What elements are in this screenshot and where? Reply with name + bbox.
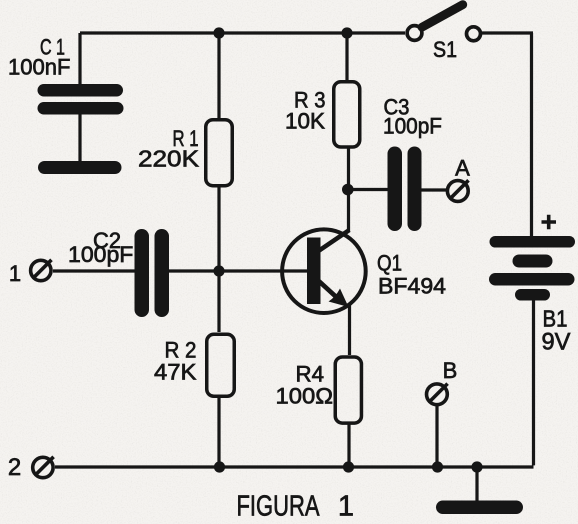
capacitor C1 plate 2 — [38, 102, 124, 115]
wire input to C2 — [53, 269, 136, 272]
ground below C1 — [38, 161, 122, 174]
resistor R1 — [206, 120, 233, 186]
svg-text:A: A — [455, 156, 470, 181]
battery B1 plate 4 — [515, 289, 550, 301]
svg-text:B: B — [443, 358, 458, 383]
wire R1 top — [217, 33, 220, 118]
transistor Q1 emitter lead — [316, 279, 339, 300]
wire ground stub — [475, 467, 478, 501]
caption FIGURA 1 — [237, 491, 355, 523]
node top rail R1 — [213, 27, 224, 38]
ground bar bottom right — [436, 501, 523, 515]
capacitor C1 plate 1 — [38, 84, 124, 97]
svg-text:FIGURA: FIGURA — [237, 491, 320, 523]
svg-text:100nF: 100nF — [8, 55, 71, 80]
wire C3 to terminal A — [421, 188, 447, 191]
capacitor C3 plate 1 — [388, 147, 403, 232]
terminal 1 — [31, 260, 52, 281]
svg-text:9V: 9V — [542, 329, 571, 356]
transistor Q1 emitter arrowhead — [329, 289, 349, 308]
node base junction — [213, 265, 224, 276]
capacitor C3 plate 2 — [408, 147, 422, 232]
node collector C3 junction — [342, 184, 354, 196]
node bottom rail R4 — [343, 461, 354, 472]
wire C1 middle stub — [78, 114, 81, 161]
capacitor C2 plate 2 — [155, 229, 170, 317]
svg-text:220K: 220K — [138, 146, 200, 172]
svg-text:BF494: BF494 — [378, 274, 446, 299]
switch S1 left contact — [407, 26, 422, 41]
transistor Q1 collector lead — [317, 230, 349, 252]
svg-text:S1: S1 — [433, 37, 457, 62]
node bottom rail B — [432, 461, 443, 472]
wire R1 to R2 through base node — [217, 187, 220, 332]
wire node to C3 — [348, 188, 388, 191]
wire C1 top stub — [78, 33, 81, 84]
svg-text:100pF: 100pF — [383, 114, 442, 139]
wire R3 to collector — [347, 149, 350, 232]
battery B1 plate 2 — [513, 255, 553, 268]
wire R4 bottom — [347, 425, 350, 468]
wire S1 to right rail — [482, 31, 533, 34]
svg-text:100pF: 100pF — [68, 242, 133, 267]
wire R2 bottom — [217, 398, 220, 467]
svg-text:100Ω: 100Ω — [276, 384, 334, 409]
resistor R3 — [334, 82, 360, 147]
svg-text:1: 1 — [338, 491, 354, 523]
terminal B — [427, 384, 448, 405]
node bottom rail R2 — [214, 461, 225, 472]
transistor Q1 body circle — [282, 229, 366, 313]
svg-text:47K: 47K — [154, 360, 197, 385]
switch S1 lever — [422, 5, 463, 28]
wire right rail down to battery — [530, 33, 533, 236]
capacitor C2 plate 1 — [135, 229, 150, 317]
svg-text:Q1: Q1 — [377, 251, 402, 276]
svg-text:1: 1 — [9, 261, 21, 286]
node top rail R3 — [341, 27, 352, 38]
wire top rail — [80, 31, 405, 34]
svg-text:10K: 10K — [285, 109, 325, 134]
wire terminal B stub — [435, 406, 438, 467]
wire R3 top — [345, 33, 348, 80]
battery B1 plate 1 — [490, 236, 576, 248]
battery plus sign — [542, 215, 557, 229]
battery B1 plate 3 — [489, 273, 575, 286]
svg-text:2: 2 — [8, 454, 21, 481]
terminal A — [447, 180, 468, 201]
resistor R4 — [335, 357, 361, 423]
terminal 2 — [33, 457, 54, 478]
resistor R2 — [207, 334, 235, 396]
wire C2 to base — [168, 269, 308, 272]
transistor Q1 base bar — [307, 238, 321, 305]
node bottom rail ground — [471, 461, 482, 472]
switch S1 right contact — [467, 27, 481, 41]
wire battery to bottom rail — [55, 300, 534, 467]
wire emitter to R4 — [348, 305, 351, 355]
